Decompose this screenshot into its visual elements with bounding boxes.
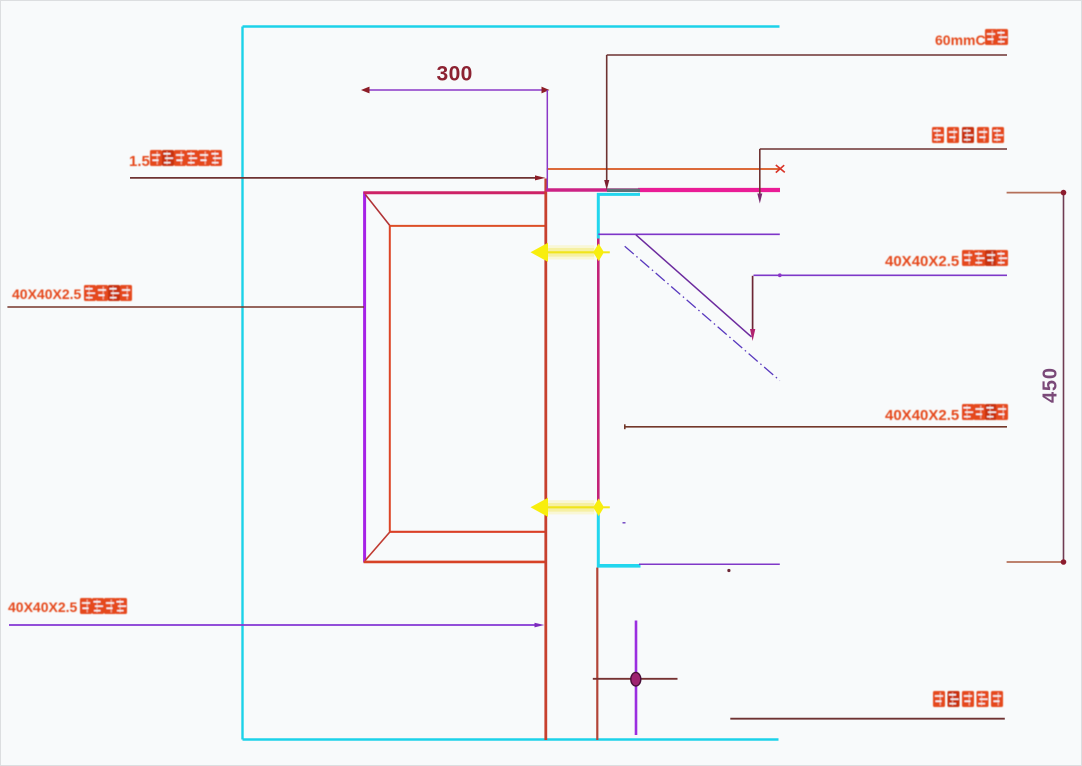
cyan mullion vertical lower bbox=[597, 513, 600, 568]
leader line label5 underline bbox=[730, 718, 1005, 720]
svg-text:40X40X2.5: 40X40X2.5 bbox=[885, 407, 959, 424]
leader line sheet horizontal bbox=[760, 148, 1007, 150]
cyan mullion vertical upper bbox=[597, 193, 600, 239]
leader label3 node bbox=[778, 273, 782, 277]
leader line label1 horizontal bbox=[130, 177, 537, 179]
brace solid diagonal bbox=[636, 235, 752, 337]
leader label1 arrowhead bbox=[535, 175, 546, 180]
leader sheet arrowhead bbox=[757, 194, 762, 204]
crosshair vertical bbox=[635, 621, 638, 736]
svg-text:40X40X2.5: 40X40X2.5 bbox=[885, 253, 959, 270]
square tube top edge bbox=[364, 191, 546, 194]
leader label8 arrowhead bbox=[535, 623, 545, 628]
square tube left edge bbox=[363, 192, 366, 563]
dimension 300 right arrowhead bbox=[542, 87, 550, 94]
marker X at orange line end bbox=[776, 165, 785, 173]
square tube chamfer top-left bbox=[365, 195, 390, 226]
dimension 450 vertical line bbox=[1063, 193, 1065, 562]
stud red-brown vertical line bbox=[596, 568, 598, 741]
sheet magenta horizontal thick left part bbox=[546, 188, 641, 191]
svg-text:40X40X2.5: 40X40X2.5 bbox=[8, 599, 77, 615]
cyan clip horizontal bottom bbox=[597, 564, 641, 568]
brace dash-dot diagonal bbox=[625, 246, 780, 380]
square tube bottom edge bbox=[364, 561, 546, 564]
leader 60mm arrowhead bbox=[604, 180, 609, 190]
label7 text profiled sheet upper bbox=[932, 127, 944, 143]
svg-text:40X40X2.5: 40X40X2.5 bbox=[12, 286, 81, 302]
dimension 450 bottom tick bbox=[1007, 561, 1064, 563]
dimension 300 extension line bbox=[546, 90, 548, 190]
square tube inner bottom bbox=[390, 531, 546, 533]
square tube chamfer bottom-left bbox=[365, 532, 390, 561]
square tube inner left bbox=[389, 225, 391, 532]
leader line 60mm horizontal bbox=[607, 54, 1007, 56]
plate red vertical line bbox=[544, 179, 547, 741]
crosshair ellipse bbox=[631, 672, 641, 686]
wire cyan boundary bottom horizontal bbox=[243, 738, 779, 740]
svg-text:60mmC: 60mmC bbox=[935, 32, 986, 48]
wire cyan boundary top horizontal bbox=[243, 25, 780, 27]
node dash artifact bbox=[623, 522, 626, 524]
cyan clip horizontal top bbox=[597, 193, 640, 196]
label5 text profiled sheet lower bbox=[933, 691, 945, 707]
gray clip segment bbox=[607, 189, 640, 192]
leader line 60mm vertical bbox=[606, 55, 608, 183]
dimension 450 bottom node bbox=[1061, 559, 1067, 565]
square tube inner top bbox=[390, 225, 546, 227]
node dot artifact bbox=[727, 569, 730, 572]
angle orange horizontal line bbox=[547, 168, 781, 170]
sheet magenta horizontal thick right part bbox=[638, 188, 780, 192]
purple rail lower horizontal bbox=[639, 563, 780, 565]
wire cyan boundary left vertical bbox=[241, 27, 243, 740]
dimension 300 line bbox=[366, 89, 547, 91]
yellow arrow lower bbox=[531, 498, 610, 517]
yellow arrow upper bbox=[531, 243, 610, 262]
leader line sheet vertical bbox=[759, 149, 761, 196]
leader label3 arrowhead bbox=[750, 329, 755, 341]
dimension 300 left arrowhead bbox=[361, 87, 370, 94]
svg-text:450: 450 bbox=[1040, 367, 1062, 403]
leader line label8 purple horizontal bbox=[9, 624, 539, 626]
leader line label2 horizontal bbox=[7, 306, 364, 308]
dimension 450 top tick bbox=[1007, 192, 1064, 194]
leader line label3 underline bbox=[754, 274, 1008, 276]
svg-text:1.5: 1.5 bbox=[129, 153, 150, 170]
purple rail upper horizontal bbox=[598, 233, 780, 235]
magenta mullion vertical bbox=[597, 239, 600, 514]
leader line label4 underline bbox=[625, 426, 1007, 428]
crosshair horizontal bbox=[593, 678, 678, 680]
svg-text:300: 300 bbox=[437, 63, 473, 86]
dimension 450 top node bbox=[1061, 190, 1067, 196]
leader label4 tick bbox=[624, 424, 626, 429]
leader line label3 vertical bbox=[752, 276, 754, 330]
